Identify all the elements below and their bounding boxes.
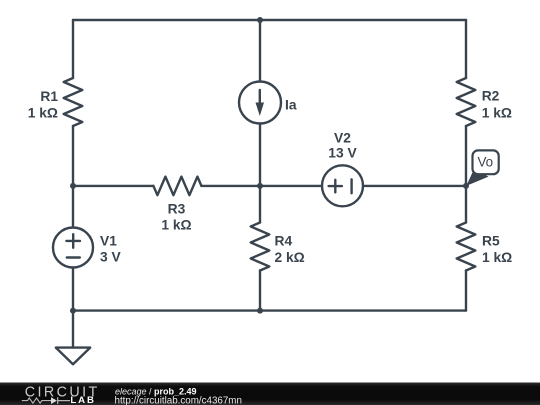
- wire middle horizontal left: [73, 185, 153, 187]
- ground: [56, 348, 90, 365]
- wire right vertical upper: [465, 20, 467, 78]
- resistor R3: [153, 177, 201, 196]
- wire left vertical mid: [72, 126, 74, 228]
- svg-text:R2: R2: [482, 89, 500, 104]
- wire middle vertical upper: [259, 20, 261, 82]
- voltage source V1: [53, 228, 93, 268]
- logo diode: [51, 397, 57, 404]
- wire middle vertical mid: [259, 124, 261, 223]
- wire middle horizontal mid: [201, 185, 322, 187]
- current source Ia: [239, 82, 281, 124]
- junction center: [257, 183, 263, 189]
- resistor R2: [457, 78, 476, 126]
- wire middle vertical lower: [259, 271, 261, 311]
- junction top middle: [257, 17, 263, 23]
- junction left middle: [70, 183, 76, 189]
- svg-text:http://circuitlab.com/c4367mn: http://circuitlab.com/c4367mn: [115, 395, 242, 405]
- wire bottom horizontal: [73, 309, 466, 311]
- svg-text:LAB: LAB: [70, 395, 95, 405]
- resistor R4: [251, 223, 270, 271]
- svg-text:1 kΩ: 1 kΩ: [28, 105, 58, 120]
- svg-text:R3: R3: [168, 201, 186, 216]
- wire left vertical upper: [72, 20, 74, 78]
- svg-text:R4: R4: [275, 234, 293, 249]
- wire ground lead: [72, 311, 74, 348]
- junction bottom middle: [257, 308, 263, 314]
- svg-text:R1: R1: [40, 89, 58, 104]
- node Vo junction: [463, 183, 469, 189]
- svg-text:R5: R5: [482, 234, 500, 249]
- svg-text:Ia: Ia: [285, 98, 297, 113]
- current source Ia arrowhead: [256, 103, 265, 117]
- footer bar: [0, 383, 540, 405]
- svg-text:13 V: 13 V: [328, 146, 357, 161]
- node Vo flag box: [473, 150, 499, 174]
- svg-text:V2: V2: [334, 130, 351, 145]
- svg-text:1 kΩ: 1 kΩ: [161, 217, 191, 232]
- wire middle horizontal right: [363, 185, 466, 187]
- wire top horizontal: [73, 19, 466, 21]
- svg-text:2 kΩ: 2 kΩ: [275, 250, 305, 265]
- svg-text:Vo: Vo: [477, 155, 493, 170]
- svg-text:3 V: 3 V: [100, 250, 122, 265]
- logo resistor squiggle: [22, 398, 51, 403]
- wire left vertical lower: [72, 268, 74, 311]
- voltage source V2: [322, 165, 363, 206]
- node Vo pointer wedge: [466, 169, 488, 186]
- wire right vertical lower: [465, 271, 467, 311]
- svg-text:1 kΩ: 1 kΩ: [482, 250, 512, 265]
- wire right vertical mid: [465, 126, 467, 223]
- svg-text:V1: V1: [100, 234, 117, 249]
- svg-text:1 kΩ: 1 kΩ: [482, 106, 512, 121]
- resistor R1: [64, 78, 83, 126]
- resistor R5: [457, 223, 476, 271]
- junction bottom left: [70, 308, 76, 314]
